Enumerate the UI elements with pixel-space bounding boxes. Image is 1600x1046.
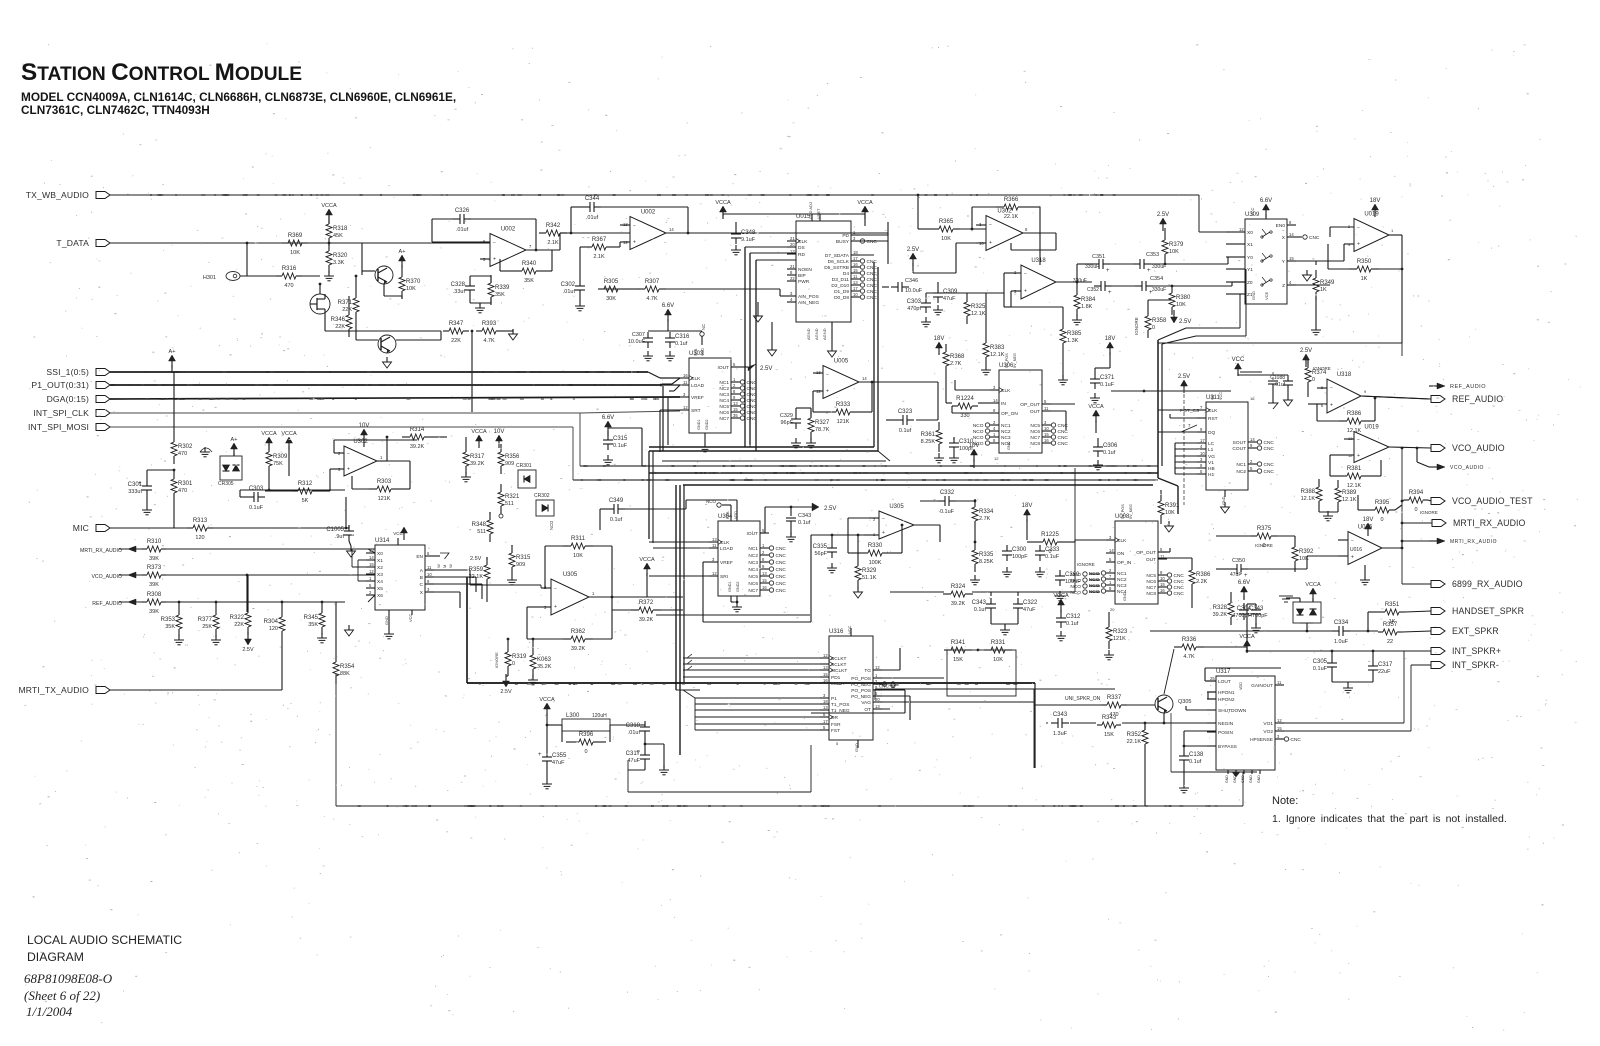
svg-text:14: 14 [1109,548,1114,553]
svg-text:R333: R333 [836,402,851,408]
svg-text:C349: C349 [609,498,624,504]
svg-text:POSIN: POSIN [1218,730,1233,736]
svg-text:VCCA: VCCA [321,203,337,209]
svg-text:LOUT: LOUT [1218,679,1231,685]
svg-text:0.1uf: 0.1uf [675,341,688,347]
svg-text:DR: DR [831,715,838,721]
svg-text:NC2: NC2 [1236,469,1246,475]
svg-text:IGNORE: IGNORE [1134,317,1139,335]
svg-text:22K: 22K [342,307,352,313]
svg-text:0.1uf: 0.1uf [1066,621,1079,627]
svg-text:−: − [989,222,992,228]
svg-text:9.1uF: 9.1uF [741,237,756,243]
svg-text:R379: R379 [1169,242,1184,248]
svg-text:R389: R389 [1342,490,1357,496]
svg-text:CNC: CNC [747,398,758,404]
svg-text:2.5V: 2.5V [500,689,512,695]
svg-text:96pF: 96pF [780,420,793,426]
svg-text:1. Ignore indicates that t: 1. Ignore indicates that the part is not… [1272,813,1507,825]
svg-text:6.6V: 6.6V [662,303,674,309]
svg-text:5V_POS: 5V_POS [1005,353,1009,368]
svg-text:C318: C318 [626,723,641,729]
svg-text:CLK: CLK [691,376,701,382]
svg-text:1.8K: 1.8K [1081,304,1093,310]
svg-text:X4: X4 [377,579,383,585]
svg-text:.9uf: .9uf [335,534,345,540]
svg-text:VCCA: VCCA [1088,404,1104,410]
svg-text:C334: C334 [1334,620,1349,626]
svg-text:39.2K: 39.2K [1213,612,1228,618]
svg-text:+: + [1244,573,1248,579]
svg-text:17: 17 [1200,438,1205,443]
svg-text:GND: GND [1123,592,1127,601]
svg-text:10V: 10V [494,429,505,435]
svg-text:REF_AUDIO: REF_AUDIO [1450,384,1486,390]
svg-text:+: + [1357,241,1360,247]
svg-text:CNC: CNC [747,392,758,398]
svg-text:DQ: DQ [1208,430,1215,436]
svg-text:NCO: NCO [1070,572,1081,578]
svg-text:D6_SCLK: D6_SCLK [828,259,850,265]
svg-text:0.1uF: 0.1uF [613,443,628,449]
svg-text:NC1: NC1 [1001,423,1011,429]
svg-text:U005: U005 [834,359,849,365]
svg-text:18V: 18V [1370,198,1381,204]
svg-text:NC6: NC6 [1030,429,1040,435]
svg-text:C328: C328 [451,282,466,288]
svg-text:(Sheet 6 of 22): (Sheet 6 of 22) [24,988,100,1003]
svg-text:AGND: AGND [806,328,811,340]
svg-text:47uF: 47uF [627,758,640,764]
svg-text:VCC: VCC [1250,207,1255,216]
svg-text:R353: R353 [161,617,176,623]
svg-text:R323: R323 [1113,629,1128,635]
svg-text:+: + [633,239,636,245]
svg-text:CNC: CNC [1264,462,1275,468]
svg-text:VSET: VSET [816,208,821,219]
svg-text:12: 12 [875,665,880,670]
svg-text:Note:: Note: [1272,795,1298,807]
svg-text:VCC: VCC [1232,357,1245,363]
svg-text:+: + [1351,554,1354,560]
svg-text:47uF: 47uF [943,296,956,302]
svg-text:CR302: CR302 [534,493,550,499]
svg-text:6899_RX_AUDIO: 6899_RX_AUDIO [1452,579,1523,589]
svg-text:R384: R384 [1081,297,1096,303]
svg-text:CNC: CNC [867,295,878,301]
svg-text:T_DATA: T_DATA [56,238,89,248]
svg-text:VDD: VDD [701,348,705,356]
svg-text:C354: C354 [1150,276,1163,282]
svg-text:35K: 35K [308,622,318,628]
svg-text:NC6: NC6 [1146,579,1156,585]
svg-text:NC8: NC8 [1030,441,1040,447]
svg-text:OP_IN: OP_IN [1117,560,1132,566]
svg-text:CLK: CLK [1208,408,1218,414]
svg-text:20: 20 [1110,607,1115,612]
svg-text:R328: R328 [1213,605,1228,611]
svg-text:+: + [882,530,885,536]
svg-text:13: 13 [823,705,828,710]
svg-text:NC1: NC1 [719,380,729,386]
svg-text:35.2K: 35.2K [537,664,552,670]
svg-text:R369: R369 [288,233,303,239]
svg-text:R372: R372 [639,600,654,606]
svg-text:SOUT: SOUT [1233,440,1246,446]
svg-text:+: + [1147,268,1151,274]
svg-text:R394: R394 [1409,490,1424,496]
svg-text:12.1K: 12.1K [971,311,986,317]
svg-text:−: − [633,223,636,229]
svg-text:C312: C312 [1066,614,1081,620]
svg-text:R339: R339 [495,285,510,291]
svg-text:15K: 15K [1104,732,1114,738]
svg-text:PD1: PD1 [831,675,841,681]
svg-text:15: 15 [823,672,828,677]
svg-text:1.3K: 1.3K [1067,338,1079,344]
svg-text:NCO: NCO [1070,578,1081,584]
svg-text:T1_POS: T1_POS [831,702,849,708]
svg-text:R313: R313 [193,518,208,524]
svg-text:47uF: 47uF [1230,572,1241,578]
svg-text:14: 14 [993,398,998,403]
svg-text:22.1K: 22.1K [1127,739,1142,745]
svg-text:C306: C306 [1103,443,1118,449]
svg-text:CNC: CNC [747,380,758,386]
svg-text:C303: C303 [907,299,922,305]
svg-text:R347: R347 [449,321,464,327]
svg-text:VCO_AUDIO: VCO_AUDIO [1452,443,1505,453]
svg-text:X3: X3 [377,572,383,578]
svg-text:NC4: NC4 [748,567,758,573]
svg-text:13: 13 [762,571,767,576]
svg-text:15: 15 [1277,726,1282,731]
svg-text:+: + [1024,289,1027,295]
svg-text:10K: 10K [993,657,1003,663]
svg-text:MRTI_TX_AUDIO: MRTI_TX_AUDIO [18,685,89,695]
svg-text:18V: 18V [934,336,945,342]
svg-text:35K: 35K [524,278,534,284]
svg-text:X1: X1 [1247,242,1253,248]
svg-text:16: 16 [1160,588,1165,593]
svg-text:22: 22 [1387,639,1393,645]
svg-text:11: 11 [853,274,858,279]
svg-text:C333: C333 [1045,547,1060,553]
svg-text:−: − [347,452,350,458]
svg-text:2.5V: 2.5V [907,247,919,253]
svg-text:14: 14 [1250,437,1255,442]
svg-text:U016: U016 [1350,547,1362,553]
svg-text:NCO: NCO [973,441,984,447]
svg-text:CNC: CNC [776,581,787,587]
svg-text:FST: FST [831,728,840,734]
svg-text:−: − [1357,225,1360,231]
svg-text:AGND: AGND [822,328,827,340]
svg-text:PWR: PWR [798,279,810,285]
svg-text:VCO_AUDIO: VCO_AUDIO [1450,465,1484,471]
svg-text:8.25K: 8.25K [979,559,994,565]
svg-text:R317: R317 [470,454,485,460]
svg-text:VCCA: VCCA [471,429,487,435]
svg-text:HPON1: HPON1 [1218,690,1235,696]
svg-text:6.6V: 6.6V [1238,580,1250,586]
svg-text:0.1uF: 0.1uF [1100,382,1115,388]
svg-text:121K: 121K [837,419,850,425]
svg-text:C1088: C1088 [1270,375,1285,381]
svg-text:C344: C344 [585,196,600,202]
svg-text:121K: 121K [378,496,391,502]
svg-text:X5: X5 [377,586,383,592]
svg-text:R316: R316 [282,266,297,272]
svg-text:+: + [989,240,992,246]
svg-text:W: W [448,564,453,568]
svg-text:GND1: GND1 [728,581,732,592]
svg-text:HPON2: HPON2 [1218,697,1235,703]
svg-text:VREF: VREF [720,560,733,566]
svg-text:R337: R337 [1107,695,1122,701]
svg-text:R1224: R1224 [956,396,974,402]
svg-text:15: 15 [369,562,374,567]
svg-text:10: 10 [1200,451,1205,456]
svg-text:47uF: 47uF [552,760,565,766]
svg-text:C316: C316 [675,334,690,340]
svg-text:.01uf: .01uf [628,730,641,736]
svg-text:R325: R325 [971,304,986,310]
svg-text:D3_D11: D3_D11 [832,277,850,283]
svg-text:U019: U019 [1364,212,1379,218]
svg-text:H1: H1 [1208,472,1214,478]
svg-text:C1005: C1005 [326,527,344,533]
svg-text:10: 10 [1160,576,1165,581]
svg-text:2.7K: 2.7K [950,361,962,367]
svg-text:0.1uF: 0.1uF [1313,666,1328,672]
svg-text:GND: GND [1251,291,1256,300]
svg-text:30K: 30K [606,296,616,302]
svg-text:NC7: NC7 [1146,585,1156,591]
svg-text:VCCA: VCCA [261,431,277,437]
svg-text:470pf: 470pf [907,306,921,312]
svg-text:C351: C351 [1092,254,1105,260]
svg-text:15: 15 [853,268,858,273]
svg-text:121K: 121K [1113,636,1126,642]
svg-text:A+: A+ [169,349,176,355]
svg-text:+: + [1357,453,1360,459]
svg-text:R356: R356 [505,454,520,460]
svg-text:C307: C307 [632,332,645,338]
svg-text:EN: EN [416,554,423,560]
svg-text:CNC: CNC [867,283,878,289]
svg-text:11: 11 [1044,406,1049,411]
svg-text:R358: R358 [1152,318,1167,324]
svg-text:CNC: CNC [1264,440,1275,446]
svg-text:CNC: CNC [867,271,878,277]
svg-text:16: 16 [1044,438,1049,443]
svg-text:78.7K: 78.7K [815,427,830,433]
svg-text:R341: R341 [951,640,966,646]
svg-text:R368: R368 [950,354,965,360]
svg-text:10: 10 [853,292,858,297]
svg-text:4700pF: 4700pF [1232,613,1251,619]
svg-text:INT_SPKR-: INT_SPKR- [1452,660,1499,670]
svg-text:1K: 1K [1320,287,1327,293]
svg-text:R314: R314 [410,427,425,433]
svg-text:−: − [1330,386,1333,392]
svg-text:R310: R310 [147,539,162,545]
svg-text:PO_POS: PO_POS [851,688,871,694]
svg-text:R324: R324 [951,584,966,590]
svg-text:IGNORE: IGNORE [1313,366,1331,371]
svg-text:25K: 25K [202,624,212,630]
svg-text:+: + [826,388,829,394]
svg-text:R346: R346 [331,317,346,323]
svg-text:12: 12 [683,405,688,410]
svg-text:12.1K: 12.1K [1342,497,1357,503]
svg-text:15: 15 [1044,432,1049,437]
svg-text:39.2K: 39.2K [470,461,485,467]
svg-text:C317: C317 [626,751,641,757]
svg-text:2.2K: 2.2K [1196,579,1208,585]
svg-text:Z: Z [1282,283,1285,289]
svg-text:VDD: VDD [734,511,738,519]
svg-text:OT: OT [864,707,871,713]
svg-text:0: 0 [1414,507,1417,513]
svg-text:INT_SPI_MOSI: INT_SPI_MOSI [28,422,89,432]
svg-text:X6: X6 [377,593,383,599]
svg-text:10K: 10K [941,236,951,242]
svg-text:R321: R321 [505,494,520,500]
svg-text:120uH: 120uH [592,713,607,719]
svg-text:GAINOUT: GAINOUT [1251,683,1273,689]
svg-text:10: 10 [427,572,432,577]
svg-text:39K: 39K [149,582,159,588]
svg-text:+: + [1108,290,1112,296]
svg-text:0.1uf: 0.1uf [974,607,987,613]
svg-text:CNC: CNC [1264,469,1275,475]
svg-text:IOUT: IOUT [718,365,730,371]
svg-text:GND: GND [1241,775,1245,783]
svg-text:5V_NEG: 5V_NEG [1129,504,1133,519]
svg-text:R388: R388 [1301,489,1316,495]
svg-text:R305: R305 [604,279,619,285]
svg-text:GND: GND [1249,775,1253,783]
svg-text:INT_SPKR+: INT_SPKR+ [1452,646,1501,656]
svg-text:CNC: CNC [1058,441,1069,447]
svg-text:OP_OUT: OP_OUT [1136,550,1156,556]
svg-text:R308: R308 [147,592,162,598]
svg-text:NEGIN: NEGIN [1218,721,1234,727]
svg-text:D1_D9: D1_D9 [834,289,849,295]
svg-text:REF_AUDIO: REF_AUDIO [92,601,122,607]
svg-text:C371: C371 [1100,375,1115,381]
svg-text:TG: TG [864,668,871,674]
svg-text:C301: C301 [128,482,143,488]
svg-text:2.5V: 2.5V [1157,212,1169,218]
svg-text:NC5: NC5 [719,404,729,410]
svg-text:15: 15 [762,578,767,583]
svg-text:0.1uF: 0.1uF [940,509,955,515]
svg-text:LOCAL AUDIO SCHEMATIC: LOCAL AUDIO SCHEMATIC [27,933,182,947]
svg-text:0: 0 [512,661,515,667]
svg-text:C326: C326 [455,208,470,214]
svg-text:15: 15 [733,407,738,412]
svg-text:C335: C335 [813,544,828,550]
svg-text:45K: 45K [333,233,343,239]
svg-text:2.7K: 2.7K [979,516,991,522]
svg-text:C309: C309 [943,289,958,295]
svg-text:B: B [420,575,423,581]
svg-text:R377: R377 [198,617,213,623]
svg-text:ON: ON [1117,551,1125,557]
svg-text:4.7K: 4.7K [483,338,495,344]
svg-text:BUSY: BUSY [836,239,850,245]
svg-text:VAG: VAG [861,700,871,706]
svg-text:CNC: CNC [867,259,878,265]
svg-text:CLK: CLK [720,540,730,546]
svg-text:R395: R395 [1375,500,1390,506]
svg-text:2.5V: 2.5V [242,647,254,653]
svg-text:L300: L300 [566,713,580,719]
svg-text:−: − [1351,538,1354,544]
svg-text:+: + [1330,403,1333,409]
svg-text:U002: U002 [641,210,656,216]
svg-text:VCCA: VCCA [639,557,655,563]
svg-text:11: 11 [1277,680,1282,685]
svg-text:R359: R359 [469,567,484,573]
svg-text:EN0: EN0 [1276,223,1286,229]
svg-text:2.1K: 2.1K [547,240,559,246]
svg-text:SRT: SRT [691,408,701,414]
svg-text:GND1: GND1 [697,419,701,430]
svg-text:GND: GND [1257,775,1261,783]
svg-text:NC3: NC3 [1001,435,1011,441]
svg-text:OUT: OUT [1146,557,1156,563]
svg-text:13: 13 [875,704,880,709]
svg-text:BIP: BIP [798,273,806,279]
svg-text:R385: R385 [1067,331,1082,337]
svg-text:13: 13 [733,401,738,406]
svg-text:C355: C355 [552,753,567,759]
svg-text:10: 10 [1044,426,1049,431]
svg-text:SSI_1(0:5): SSI_1(0:5) [46,367,89,377]
svg-text:8.25K: 8.25K [921,439,936,445]
svg-text:CNC: CNC [1058,429,1069,435]
svg-text:R309: R309 [273,454,288,460]
svg-text:2.5V: 2.5V [1178,374,1190,380]
svg-text:12: 12 [1239,227,1244,232]
svg-text:22K: 22K [451,338,461,344]
svg-text:K063: K063 [537,657,552,663]
svg-text:1.0uF: 1.0uF [1334,639,1349,645]
svg-text:CNC: CNC [1174,573,1185,579]
svg-text:10K: 10K [406,286,416,292]
svg-text:NC1: NC1 [1236,462,1246,468]
svg-text:AIN_POS: AIN_POS [798,294,819,300]
svg-text:R392: R392 [1299,549,1314,555]
svg-text:R329: R329 [862,568,877,574]
svg-text:NC2: NC2 [748,553,758,559]
svg-text:GND: GND [384,616,389,625]
svg-text:CR301: CR301 [516,463,532,469]
svg-text:NCO: NCO [973,423,984,429]
svg-text:MODEL CCN4009A, CLN1614C, CLN6: MODEL CCN4009A, CLN1614C, CLN6686H, CLN6… [21,90,456,104]
svg-text:NCO: NCO [1070,590,1081,596]
svg-text:R302: R302 [178,444,193,450]
svg-text:R320: R320 [333,253,348,259]
svg-text:330: 330 [960,413,969,419]
svg-text:R307: R307 [645,279,660,285]
svg-text:18V: 18V [1022,503,1033,509]
svg-text:VCCA: VCCA [281,431,297,437]
